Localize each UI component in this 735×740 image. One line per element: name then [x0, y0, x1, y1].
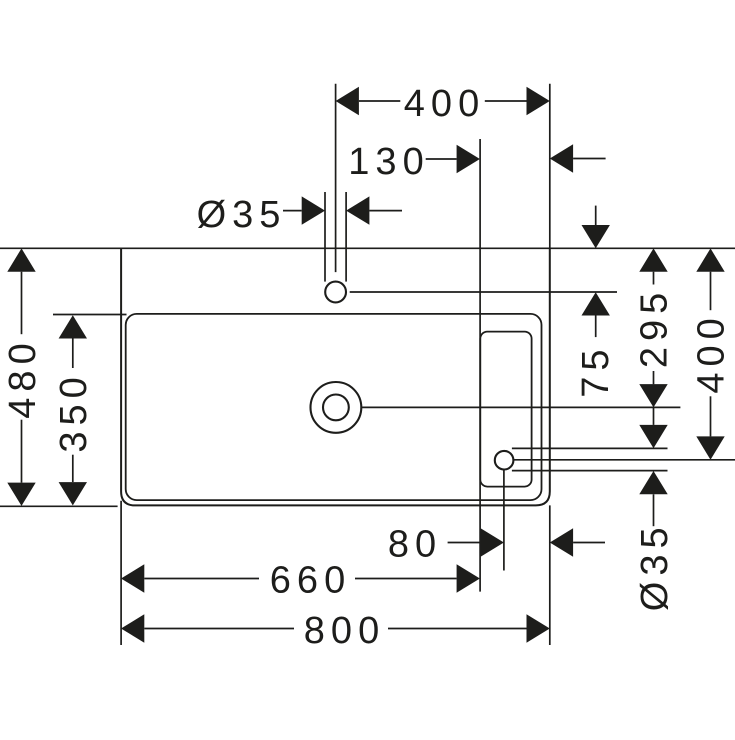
- dim 400 top line right: [485, 100, 527, 102]
- svg-text:350: 350: [53, 371, 95, 452]
- dim 295 bottom tail: [653, 371, 655, 384]
- overflow hole: [495, 451, 514, 470]
- dim 130 arrow: [457, 145, 480, 173]
- dim 295 bottom arrow: [639, 384, 667, 407]
- overflow center leader: [513, 459, 735, 461]
- dim 130 right arrow: [550, 144, 573, 172]
- dim 350 bottom tail: [72, 455, 74, 482]
- right shelf recess outline: [480, 332, 531, 487]
- left edge extension below: [120, 501, 122, 645]
- dim 350 top arrow: [59, 315, 87, 338]
- dim 480 top tail: [21, 272, 23, 335]
- dim 400 top left arrow: [336, 87, 359, 115]
- dim 350 top tail: [72, 339, 74, 369]
- dim 80 right tail: [573, 542, 605, 544]
- svg-text:Ø35: Ø35: [634, 521, 676, 611]
- overflow top extension: [512, 447, 668, 449]
- dim 130 tail: [426, 158, 457, 160]
- dim 400 right bottom tail: [710, 396, 712, 436]
- dim diam35 tail left: [283, 210, 302, 212]
- dim 480 bottom arrow: [7, 483, 35, 506]
- overflow centerline extension: [503, 470, 505, 571]
- dim 75 bottom arrow: [582, 292, 610, 315]
- dim 800 left arrow: [121, 614, 144, 642]
- faucet hole right edge extension: [345, 192, 347, 282]
- drain center leader: [362, 406, 681, 408]
- svg-text:400: 400: [404, 83, 485, 125]
- dim diam35r top tail: [653, 407, 655, 425]
- right edge extension below: [549, 505, 551, 645]
- dim 800 right arrow: [527, 614, 550, 642]
- svg-text:75: 75: [575, 343, 617, 397]
- dim 660 line right: [355, 578, 457, 580]
- dim 80 arrow: [481, 528, 504, 556]
- svg-text:Ø35: Ø35: [197, 194, 287, 236]
- right edge extension above: [549, 84, 551, 249]
- dim 400 right top arrow: [696, 248, 724, 271]
- dim 800 line left: [144, 628, 294, 630]
- dim 400 top right arrow: [527, 87, 550, 115]
- dim diam35r bottom arrow: [639, 471, 667, 494]
- drain outer circle: [311, 382, 362, 433]
- dim 295 top arrow: [639, 248, 667, 271]
- dim diam35r top arrow: [639, 425, 667, 448]
- bowl top extension left: [53, 314, 127, 316]
- dim 295 top tail: [653, 272, 655, 285]
- dim 660 right arrow: [457, 564, 480, 592]
- svg-text:480: 480: [2, 337, 44, 418]
- dim 75 top tail: [595, 206, 597, 225]
- faucet hole center leader: [350, 291, 617, 293]
- faucet hole left edge extension: [324, 192, 326, 282]
- dim 400 right bottom arrow: [696, 436, 724, 459]
- dim diam35 right arrow: [346, 196, 369, 224]
- svg-text:660: 660: [270, 559, 351, 601]
- dim 660 left arrow: [121, 564, 144, 592]
- faucet hole: [325, 282, 346, 303]
- dim 80 right arrow: [550, 528, 573, 556]
- washbasin outer outline: [121, 248, 550, 505]
- svg-text:80: 80: [388, 524, 442, 566]
- bottom edge extension left: [0, 505, 118, 507]
- dim diam35 tail right: [369, 210, 402, 212]
- dim 660 line left: [144, 578, 259, 580]
- svg-text:800: 800: [304, 610, 385, 652]
- svg-text:130: 130: [348, 141, 429, 183]
- shelf-left extension line: [479, 139, 481, 592]
- faucet centerline extension: [335, 84, 337, 272]
- dim diam35r bottom tail: [653, 494, 655, 526]
- inner bowl outline: [126, 314, 542, 500]
- dim 75 bottom tail: [595, 316, 597, 338]
- dim 400 top line left: [359, 100, 400, 102]
- dim 350 bottom arrow: [59, 482, 87, 505]
- dim 400 right top tail: [710, 272, 712, 311]
- dim 75 top arrow: [582, 225, 610, 248]
- dim 800 line right: [388, 628, 527, 630]
- dim 480 top arrow: [7, 248, 35, 271]
- dim 130 right tail: [573, 158, 606, 160]
- svg-text:400: 400: [691, 312, 733, 393]
- dim 80 tail: [448, 542, 481, 544]
- drain inner circle: [323, 395, 349, 421]
- dim diam35 left arrow: [302, 196, 325, 224]
- overflow bottom extension: [512, 470, 668, 472]
- dim 480 bottom tail: [21, 420, 23, 483]
- wall line: [0, 247, 735, 249]
- svg-text:295: 295: [634, 287, 676, 368]
